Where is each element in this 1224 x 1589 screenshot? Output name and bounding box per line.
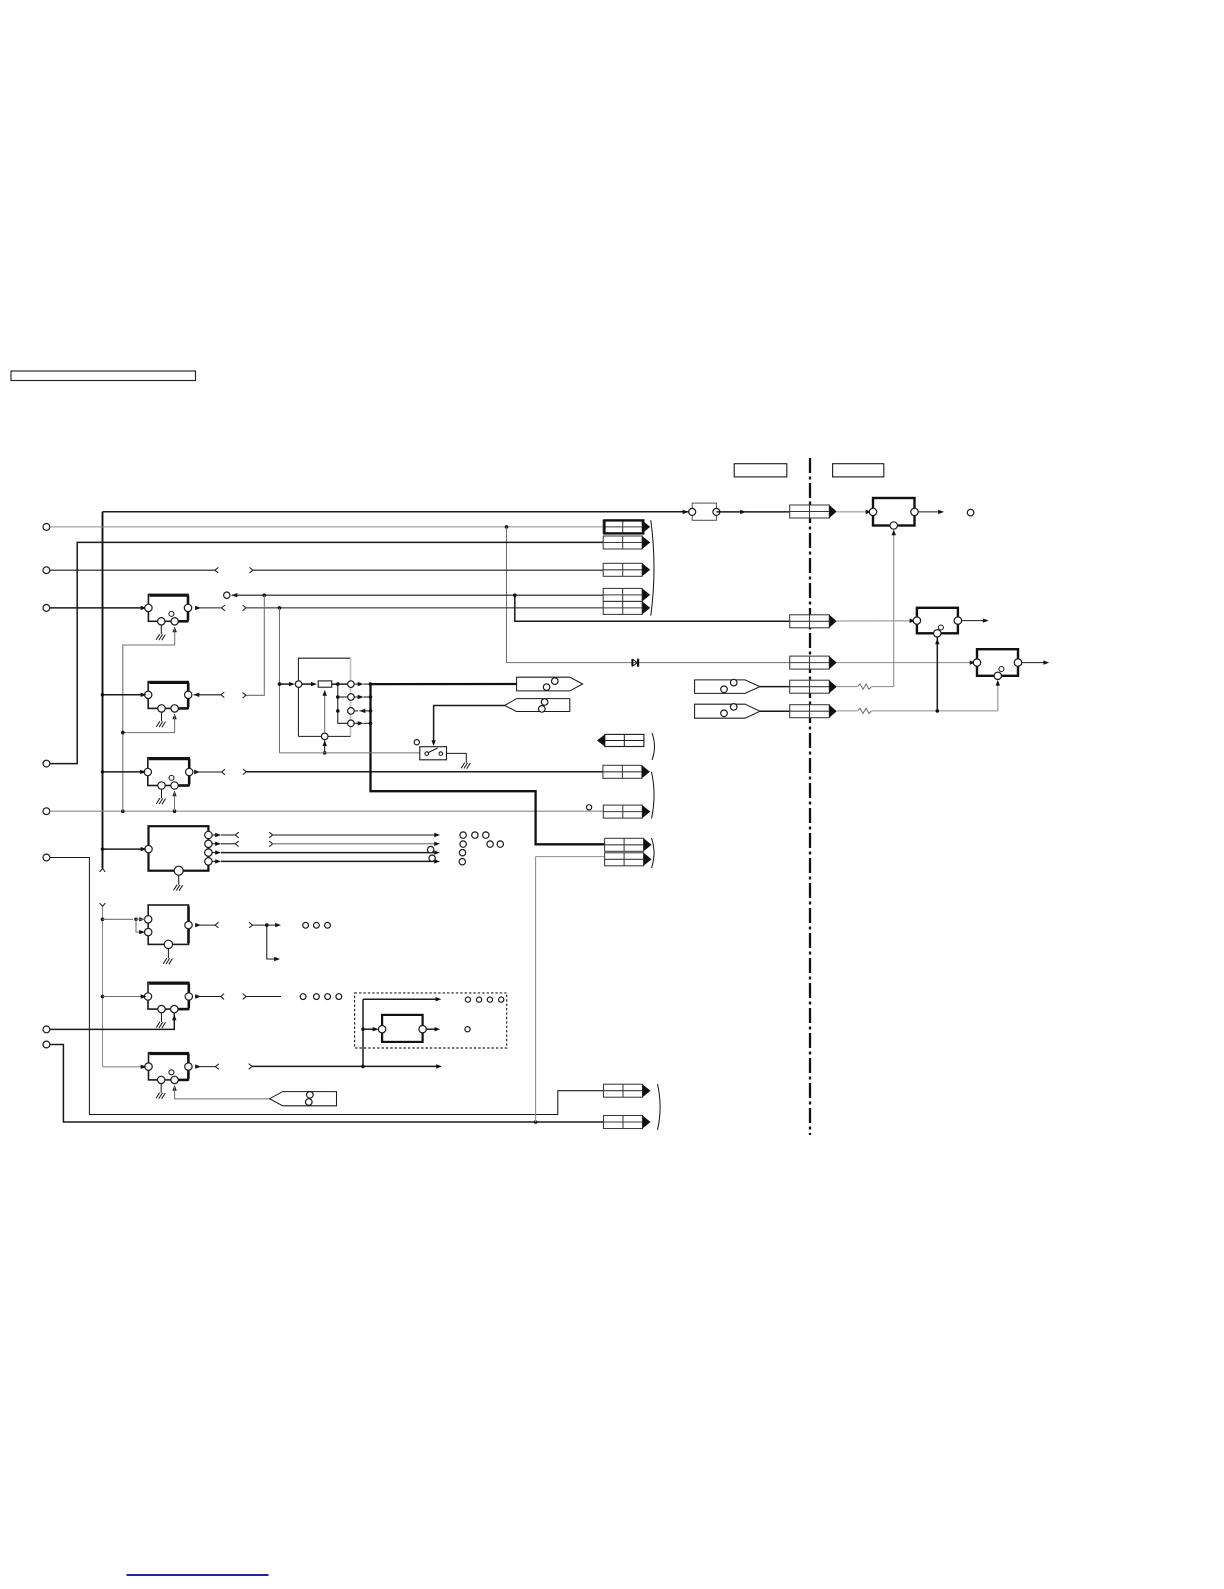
bracket C8-C9 [652, 838, 655, 868]
U4 out3 wire [212, 850, 440, 854]
wire CN-M1 to IC A [837, 511, 873, 513]
ladder right rail (light) [350, 658, 352, 736]
U5 input stub from bus [101, 917, 145, 921]
resistor R1 [302, 681, 332, 687]
IC C output [1022, 660, 1049, 664]
terminal T5 [43, 808, 50, 815]
ladder left rail [338, 684, 348, 723]
connector CN-C7 [603, 805, 650, 818]
ladder tap A2 [338, 694, 373, 701]
arrow into pad P1 [232, 593, 238, 597]
riser to IC C bottom pin [996, 680, 1000, 711]
flag F1 (to switch net, right point) [517, 677, 583, 691]
connector CN-C6 [603, 765, 650, 778]
wire N2 to switch net [323, 740, 327, 755]
dashed module outline [355, 993, 507, 1048]
junction T1/dropper [505, 525, 509, 529]
diode D1 [632, 659, 638, 667]
board boundary centerline (dash-dot) [809, 458, 811, 1135]
net T7 (to U6 pin) [50, 1013, 175, 1029]
bus (vertical, lower grey) [102, 907, 104, 1067]
ladder feedback loop (left/top) [298, 658, 350, 736]
ground U1 [156, 625, 165, 640]
pad cluster right of U4 [459, 832, 503, 865]
wire flagF2 to switch [434, 706, 505, 745]
arrow into IC B bottom pin [935, 639, 939, 645]
U4 out1 continuation [269, 832, 440, 838]
bracket C11-C12 [658, 1084, 661, 1130]
U1 emitter wire (down-left) [123, 628, 175, 811]
flag F5 (left point) [270, 1092, 337, 1106]
connector CN-C8 [605, 838, 652, 851]
title box (empty) [11, 371, 196, 381]
arrow T7 into U6 pin [172, 1015, 176, 1021]
junction module riser / X2 input [361, 1027, 365, 1031]
CN-M2 drop wire [515, 595, 790, 621]
wire coupling box to CN-M1 [716, 511, 789, 513]
bus (vertical, upper) [100, 512, 106, 872]
riser IC B bottom pin [936, 633, 938, 711]
pad P1 [224, 592, 230, 598]
bus wire ladder down (thick) [371, 684, 605, 844]
ladder node N1 [278, 681, 302, 688]
IC block U4 [145, 826, 212, 875]
terminal T6 [43, 854, 50, 861]
terminal T7 [43, 1026, 50, 1033]
X2 output [426, 1027, 440, 1031]
net P1 (to CN-C4) [232, 594, 604, 596]
flag F2 (left point) [505, 699, 570, 713]
wire R1 to tap A1 [332, 682, 348, 686]
grey riser x535 lower [535, 857, 537, 1122]
transistor block U5 [145, 905, 193, 949]
connector CN-M2 [790, 615, 837, 628]
pad right of IC A [967, 509, 974, 516]
connector CN-C4 [603, 588, 650, 601]
ladder tap A1 [348, 681, 373, 688]
riser U2-return [246, 595, 264, 695]
switch net (grey) [280, 752, 420, 754]
dropper to resistor ladder node [279, 608, 281, 753]
module feedback riser [362, 999, 364, 1066]
junction rail/tap A3 [336, 709, 340, 713]
IC block B [913, 608, 961, 637]
ground U3 [156, 789, 165, 804]
coupling box X1 [689, 503, 720, 520]
net T4 (up and over to CN-C2) [50, 542, 603, 763]
wire flag F3 to CN-M4 [760, 686, 790, 688]
U2 emitter wire (down-left) [123, 715, 175, 733]
connector CN-M1 [790, 505, 837, 518]
connector CN-C9 [605, 853, 652, 866]
U2 output stub (signal in) [194, 692, 225, 698]
junction CN-M5 net / IC B riser [936, 709, 940, 713]
wire CN-M3 to IC C [837, 662, 972, 664]
footer rule (blue) [127, 1574, 269, 1576]
terminal T4 [43, 760, 50, 767]
U4 out4 wire [212, 859, 440, 863]
pad trio near U5 [303, 922, 331, 928]
U4 out2 continuation [269, 841, 440, 847]
connector CN-C2 [603, 536, 650, 549]
connector CN-M5 [790, 705, 837, 718]
net U7-out continuation [249, 1064, 442, 1070]
U5 input fan to pin2 [136, 919, 145, 934]
net T2 segment b (to CN-C3) [250, 567, 604, 573]
wiper wire N2 to R1 [323, 690, 327, 733]
transistor block U2 [145, 682, 192, 713]
terminal T2 [43, 567, 50, 574]
U4 input stub from bus [101, 847, 147, 851]
wire CN-M4 with resistor R2 [837, 684, 894, 689]
transistor block U1 [145, 594, 192, 625]
transistor block U7 [145, 1053, 192, 1084]
connector CN-C10 (reversed) [597, 734, 644, 746]
IC block C [973, 649, 1021, 679]
wire CN-C9 (grey) [536, 856, 605, 858]
diode net wire [507, 662, 790, 664]
U3 output stub [194, 769, 225, 775]
arrow into U7 bottom pin [172, 1085, 176, 1091]
IC B output [962, 618, 989, 622]
net T5 (to CN-C7) [50, 810, 604, 812]
U6 input stub from bus [101, 994, 147, 998]
ground U5 [163, 949, 172, 964]
ground U2 [156, 712, 165, 727]
junction CN-M2 drop [513, 593, 517, 597]
arrow into coupling box [683, 510, 689, 514]
coupling box X2 [378, 1015, 426, 1042]
U7 input from grey bus [103, 1065, 147, 1069]
bracket stack C1-C5 [651, 520, 654, 615]
junction rail/tap A2 [336, 695, 340, 699]
switch SW1 [420, 747, 447, 760]
wire net TOP (bus to coupling box) [103, 511, 693, 513]
bus break continuation fork [100, 903, 106, 906]
ground U6 [156, 1013, 165, 1028]
transistor block U3 [144, 758, 193, 789]
label box left of centerline [734, 464, 787, 477]
wire CN-M2 to IC B [837, 620, 917, 622]
net T3 (to U1 input) [50, 606, 147, 610]
ground U4 [174, 876, 183, 891]
module pads [465, 997, 504, 1032]
net T2 segment a [50, 567, 218, 573]
ladder tap A3 [348, 708, 373, 715]
terminal T1 [43, 524, 50, 531]
ladder tap A4 [348, 720, 373, 727]
U3 input stub from bus [101, 770, 146, 774]
arrow into U3 bottom pin [172, 791, 176, 797]
direction arrow on wire [740, 510, 746, 514]
connector CN-C1 (bold) [603, 520, 650, 533]
pad above switch [414, 740, 419, 745]
wire CN-M5 with resistor R3 [837, 708, 998, 713]
bus wire ladder to flag F1 (thick) [371, 683, 517, 685]
U5 output stub [195, 922, 219, 928]
ladder loop bottom [298, 735, 350, 737]
connector CN-C3 [603, 563, 650, 576]
junction P1/U2 return riser [263, 593, 267, 597]
arrow into U1 bottom pin [173, 627, 177, 633]
junction T5/U1-U2 emitter chain [121, 809, 125, 813]
connector CN-C11 [604, 1084, 651, 1097]
U1 output stub [195, 605, 225, 611]
arrow into U2 bottom pin [172, 714, 176, 720]
U6 output continuation [243, 994, 281, 1000]
IC block A [869, 498, 918, 529]
switch output to ground [447, 752, 467, 754]
net T8 (to CN-C12) [50, 1045, 604, 1123]
arrow into switch [431, 740, 435, 746]
junction U2-emitter/chain [121, 731, 125, 735]
U7 output stub [195, 1064, 219, 1070]
connector CN-C12 [604, 1116, 651, 1129]
flag F4 (right point) [695, 704, 760, 719]
terminal T8 [43, 1041, 50, 1048]
connector CN-M3 [790, 656, 837, 669]
junction U1-net/resistor ladder drop [278, 606, 282, 610]
ground U7 [156, 1084, 165, 1099]
junction U7-net/feedback riser [361, 1065, 365, 1069]
pad on U4 out3 [427, 846, 433, 852]
net U3-out continuation (to CN-C6) [243, 769, 603, 775]
arrow into IC B [910, 619, 916, 623]
transistor block U6 [144, 982, 192, 1013]
U7 emitter wire to flag F5 [175, 1087, 270, 1099]
label box right of centerline [833, 464, 884, 477]
pad on U4 out4 [429, 855, 435, 861]
net T1 (to CN-C1) [50, 526, 603, 528]
U2 input stub from bus [101, 693, 147, 697]
wire to X2 [363, 1027, 379, 1031]
U4 out2 stub [212, 841, 239, 847]
bracket C6-C7 [652, 772, 655, 819]
U6 output stub [195, 994, 224, 1000]
pad left of CN-C7 [587, 805, 592, 810]
wire flag F4 to CN-M5 [760, 710, 790, 712]
connector CN-C5 [603, 601, 650, 614]
bracket C10 [652, 733, 655, 760]
arrow into node N2 [323, 740, 327, 746]
arrow into IC C [970, 660, 976, 664]
return break to U2 output [243, 693, 246, 699]
pad quad near U6 [300, 994, 341, 1000]
ground switch [461, 753, 470, 768]
dropper wire T1 to diode net [506, 527, 508, 663]
riser to IC A bottom pin [892, 530, 896, 687]
ladder node N2 [321, 733, 328, 740]
net T6 (down and along bottom) [50, 858, 604, 1115]
module top arrow wire [363, 997, 441, 1001]
U3 emitter stem [174, 792, 176, 811]
flag F3 (right point) [695, 679, 760, 693]
IC A output [918, 510, 944, 514]
arrow into IC A [866, 510, 872, 514]
U5 output continuation split [249, 922, 281, 961]
connector CN-M4 [790, 680, 837, 693]
net U1-out continuation (to CN-C5) [243, 605, 604, 611]
junction T8/grey riser [534, 1120, 538, 1124]
U4 out1 stub [212, 832, 239, 838]
terminal T3 [43, 605, 50, 612]
junction T5/U3 emitter stem [173, 809, 177, 813]
